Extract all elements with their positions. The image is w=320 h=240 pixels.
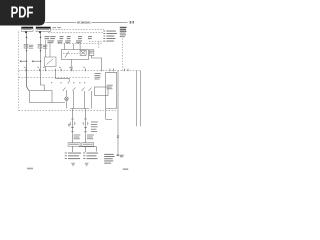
svg-text:MVC 1998 SIGNALS: MVC 1998 SIGNALS xyxy=(77,21,90,25)
svg-text:8-5: 8-5 xyxy=(130,21,135,25)
svg-text:PDF: PDF xyxy=(11,5,34,22)
